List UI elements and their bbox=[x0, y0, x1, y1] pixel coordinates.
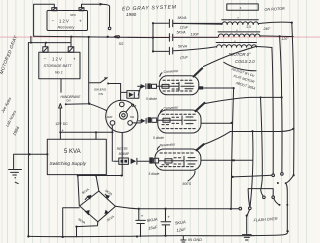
svg-text:130F: 130F bbox=[191, 33, 200, 37]
svg-text:No 1: No 1 bbox=[55, 71, 63, 75]
svg-text:+: + bbox=[141, 214, 144, 219]
svg-text:12uF: 12uF bbox=[180, 26, 189, 30]
svg-text:RESTR: RESTR bbox=[117, 147, 129, 151]
svg-text:HANDBRAKE: HANDBRAKE bbox=[61, 95, 82, 99]
svg-text:SW: SW bbox=[130, 115, 135, 119]
svg-text:5 diode: 5 diode bbox=[153, 136, 164, 140]
svg-text:+: + bbox=[168, 215, 171, 220]
svg-text:1 2 V: 1 2 V bbox=[52, 57, 62, 62]
svg-text:IN GND: IN GND bbox=[188, 237, 202, 242]
svg-text:(2uF: (2uF bbox=[180, 55, 188, 59]
svg-text:5 KVA: 5 KVA bbox=[64, 149, 81, 155]
svg-text:x: x bbox=[240, 6, 242, 10]
svg-text:5 diode: 5 diode bbox=[146, 97, 157, 101]
svg-text:COILS 2.0: COILS 2.0 bbox=[235, 59, 255, 64]
svg-text:SPC: SPC bbox=[70, 13, 77, 17]
svg-text:5 diode: 5 diode bbox=[149, 172, 160, 176]
svg-text:600'S: 600'S bbox=[183, 182, 192, 186]
svg-text:1980: 1980 bbox=[126, 12, 137, 17]
svg-text:240°: 240° bbox=[263, 27, 272, 31]
svg-text:50AMP: 50AMP bbox=[119, 152, 130, 156]
svg-text:12V DC: 12V DC bbox=[55, 122, 68, 126]
svg-text:Switching Supply: Switching Supply bbox=[50, 161, 87, 167]
svg-text:Recovery: Recovery bbox=[58, 25, 76, 30]
svg-text:AMP: AMP bbox=[107, 115, 113, 119]
svg-text:5KVA: 5KVA bbox=[178, 44, 188, 48]
svg-text:STORAGE BATT: STORAGE BATT bbox=[44, 64, 73, 68]
svg-text:2.0: 2.0 bbox=[247, 25, 252, 29]
svg-text:5KVA: 5KVA bbox=[177, 31, 187, 35]
svg-text:−: − bbox=[44, 57, 47, 62]
svg-text:+: + bbox=[79, 19, 82, 24]
svg-text:SS: SS bbox=[119, 42, 124, 46]
svg-text:1 2 V: 1 2 V bbox=[59, 19, 69, 24]
svg-text:120°: 120° bbox=[282, 37, 290, 41]
svg-text:−: − bbox=[52, 19, 55, 24]
svg-text:5KVA: 5KVA bbox=[178, 16, 188, 20]
svg-text:+: + bbox=[73, 57, 76, 62]
